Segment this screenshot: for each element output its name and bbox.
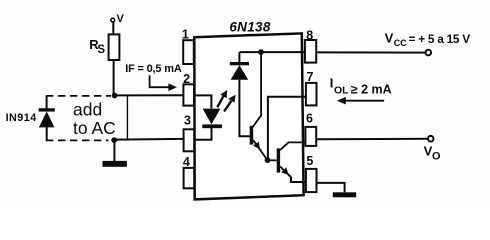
photodiode D1 cathode bar xyxy=(230,62,249,65)
wire node D to Q2 base xyxy=(268,159,277,161)
ground (output side) xyxy=(333,192,356,197)
LED D2 body xyxy=(203,109,221,125)
wire Q2 emitter to pin 5 xyxy=(291,177,306,182)
arrow IF into pin 2 xyxy=(150,75,170,87)
LED D2 cathode bar xyxy=(202,124,222,128)
svg-text:CC: CC xyxy=(394,38,407,48)
photodiode D1 body xyxy=(231,65,249,80)
wire pin 7 to node D xyxy=(268,97,306,158)
svg-text:≥ 2 mA: ≥ 2 mA xyxy=(351,82,392,96)
diode 1N914 cathode lead xyxy=(46,96,48,109)
rail pin 8 to photodiode xyxy=(239,51,305,53)
dashed option box bottom side xyxy=(46,139,109,141)
svg-text:OL: OL xyxy=(334,85,349,97)
node D junction dot xyxy=(265,157,271,163)
wire RS to node A xyxy=(113,60,115,96)
pin 5 xyxy=(306,169,317,192)
svg-text:add: add xyxy=(73,100,102,120)
terminal Vo xyxy=(428,136,434,142)
svg-text:8: 8 xyxy=(306,28,313,42)
node C junction dot xyxy=(258,49,264,55)
wire node B to ground xyxy=(113,140,115,161)
svg-text:4: 4 xyxy=(183,155,190,169)
light arrow 2 xyxy=(224,101,231,112)
svg-text:5: 5 xyxy=(306,154,313,168)
svg-text:O: O xyxy=(432,151,441,163)
node B junction dot xyxy=(111,137,117,143)
svg-text:7: 7 xyxy=(307,70,314,84)
transistor Q1 emitter xyxy=(253,140,267,160)
photodiode D1 anode lead xyxy=(239,80,249,137)
transistor Q2 collector xyxy=(280,142,306,150)
svg-text:I: I xyxy=(330,76,334,91)
diode 1N914 body xyxy=(39,112,55,128)
svg-text:S: S xyxy=(97,44,105,56)
svg-text:IN914: IN914 xyxy=(6,112,37,124)
pin 7 xyxy=(306,83,317,106)
svg-text:6N138: 6N138 xyxy=(229,20,270,35)
svg-text:1: 1 xyxy=(182,28,189,42)
diode 1N914 anode lead xyxy=(46,127,48,140)
terminal V (supply) xyxy=(111,18,115,22)
wire node A to pin 2 xyxy=(115,94,184,96)
svg-text:V: V xyxy=(385,31,394,46)
transistor Q2 base bar xyxy=(277,148,280,172)
wire pin 8 to Vcc terminal xyxy=(316,51,425,53)
wire pin 2 to LED anode xyxy=(195,95,212,108)
svg-text:V: V xyxy=(117,13,125,25)
wire pin 5 to ground xyxy=(317,183,345,192)
svg-text:6: 6 xyxy=(306,111,313,125)
pin 3 xyxy=(184,129,195,151)
svg-text:2: 2 xyxy=(183,72,190,86)
arrow IOL (points left) xyxy=(345,100,385,102)
terminal Vcc xyxy=(426,50,432,56)
transistor Q1 base bar xyxy=(250,126,254,145)
pin 1 xyxy=(183,40,194,64)
wire node B to pin 3 xyxy=(114,138,184,141)
option box right side xyxy=(126,96,128,141)
wire LED cathode to pin 3 xyxy=(195,128,212,140)
wire pin 6 to Vo terminal xyxy=(316,138,428,141)
svg-text:3: 3 xyxy=(184,113,191,127)
light arrow 1 xyxy=(217,95,224,107)
node A junction dot xyxy=(112,93,118,99)
diode 1N914 cathode bar xyxy=(39,108,55,111)
svg-text:to AC: to AC xyxy=(73,118,116,138)
transistor Q2 emitter xyxy=(280,166,291,177)
pin 4 xyxy=(184,168,195,188)
dashed option box top side xyxy=(46,95,111,97)
wire V to RS xyxy=(112,23,114,35)
pin 8 xyxy=(305,40,316,63)
resistor RS xyxy=(109,34,120,60)
pin 2 xyxy=(183,84,194,105)
transistor Q1 collector xyxy=(253,52,261,127)
svg-text:= + 5 a 15 V: = + 5 a 15 V xyxy=(409,32,471,46)
photodiode D1 cathode lead xyxy=(238,52,240,62)
svg-text:IF = 0,5 mA: IF = 0,5 mA xyxy=(125,63,182,75)
ground (input side) xyxy=(103,161,127,167)
IC 6N138 body xyxy=(194,33,303,199)
pin 6 xyxy=(305,127,316,146)
